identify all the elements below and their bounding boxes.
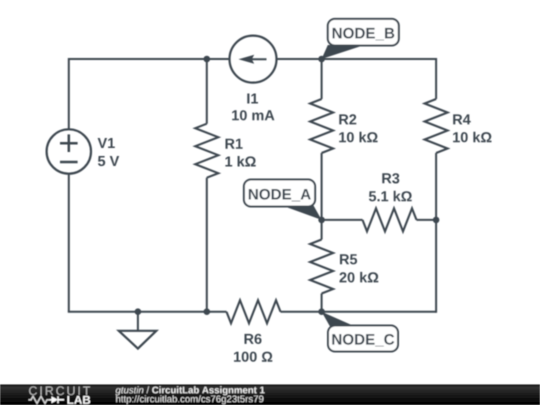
junction dot node A (318, 217, 325, 224)
value 1 kΩ (225, 156, 255, 167)
resistor R6 (227, 300, 281, 323)
value 20 kΩ (340, 272, 379, 283)
label V1 (98, 138, 115, 148)
resistor R4 (425, 99, 448, 153)
current source I1 circle (230, 36, 277, 83)
label R2 (339, 114, 356, 124)
node C text (332, 334, 394, 347)
node A callout box (244, 180, 315, 207)
label R1 (226, 139, 243, 149)
node A text (249, 189, 311, 202)
wire R2 top lead (321, 59, 323, 99)
node B callout pointer (322, 45, 365, 59)
wire R3 right lead (417, 219, 437, 221)
wire R2 bottom lead (node B branch to node A) (321, 153, 323, 220)
junction dot R3 right (433, 217, 440, 224)
wire bottom-right horizontal (281, 311, 437, 313)
value 5.1 kΩ (369, 191, 412, 202)
label R6 (245, 334, 262, 344)
I1 arrowhead (239, 55, 255, 64)
junction dot at R1 top (204, 56, 211, 63)
CircuitLab logo word CIRCUIT (29, 386, 90, 395)
wire R5 top lead (321, 220, 323, 240)
logo diode symbol (50, 399, 52, 401)
node C callout box (328, 326, 398, 352)
junction dot ground (135, 308, 142, 315)
label R5 (340, 254, 357, 264)
value 100 Ω (234, 352, 272, 362)
junction dot node C (318, 308, 325, 315)
footer url line (116, 395, 263, 404)
wire R3 left lead (322, 219, 363, 221)
V1 minus sign (60, 161, 78, 164)
junction dot R1 bottom (204, 308, 211, 315)
value 10 kΩ (R4) (453, 132, 491, 143)
value 10 mA (232, 110, 274, 120)
node B callout box (328, 19, 399, 46)
wire R5 bottom lead (321, 294, 323, 312)
logo word LAB (68, 396, 91, 404)
wire left vertical lower (68, 174, 70, 312)
label R4 (453, 114, 471, 124)
value 10 kΩ (R2) (339, 132, 377, 143)
wire right vertical middle (R4 to R3 junction) (435, 153, 437, 220)
resistor R2 (310, 99, 333, 153)
resistor R5 (310, 240, 333, 294)
wire left vertical upper (68, 58, 70, 129)
wire top-right horizontal (277, 58, 437, 60)
footer title line (116, 386, 144, 395)
node A callout pointer (282, 206, 322, 220)
resistor R1 (195, 124, 218, 178)
resistor R3 (363, 208, 417, 231)
ground triangle (119, 331, 157, 349)
node B text (333, 28, 395, 41)
value 5 V (98, 156, 119, 166)
wire R1 top lead (206, 59, 208, 124)
voltage source V1 circle (47, 129, 91, 173)
wire right vertical upper (node B to R4) (435, 58, 437, 99)
wire bottom-left horizontal (69, 311, 227, 312)
I1 arrow shaft (249, 58, 267, 60)
node C callout pointer (322, 312, 355, 327)
wire R1 bottom lead (206, 178, 208, 312)
junction dot node B (318, 56, 325, 63)
logo resistor squiggle (29, 396, 50, 403)
V1 plus sign (60, 134, 78, 152)
ground stub wire (137, 311, 139, 331)
wire top-left horizontal (69, 58, 230, 60)
wire right vertical lower (R3 junction to node C wire) (435, 220, 437, 313)
footer black bar (0, 385, 540, 405)
label R3 (382, 173, 399, 183)
label I1 (247, 94, 258, 104)
